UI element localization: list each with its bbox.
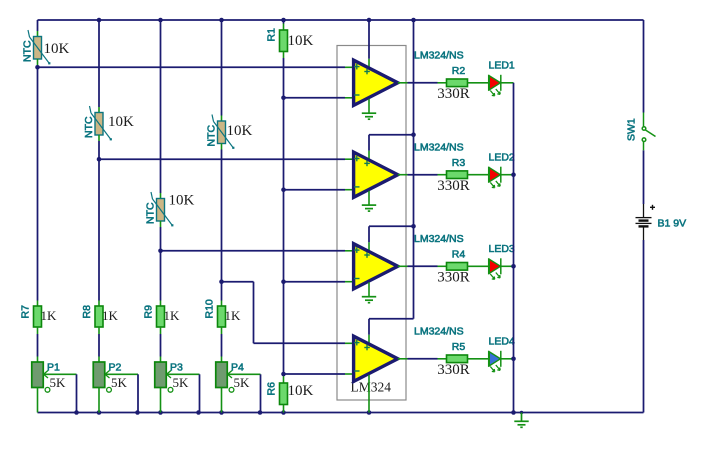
wire R7 to P1 xyxy=(37,327,39,334)
op-amp unit 2 output pin xyxy=(398,174,408,176)
wire R10 to P4 xyxy=(221,327,223,334)
op-amp U1A LM324 unit 1 xyxy=(354,60,398,105)
svg-text:LM324/NS: LM324/NS xyxy=(414,326,464,338)
LED4 emission arrows xyxy=(490,365,500,372)
wire power branch to op-amp 4 xyxy=(369,318,414,320)
potentiometer P1 wiper arrow xyxy=(44,371,49,379)
svg-text:10K: 10K xyxy=(288,383,314,399)
svg-text:1K: 1K xyxy=(41,308,58,323)
switch SW1 xyxy=(642,113,655,151)
svg-text:P1: P1 xyxy=(47,362,60,374)
thermistor NTC1 body xyxy=(34,37,42,60)
svg-text:10K: 10K xyxy=(169,193,195,209)
svg-text:330R: 330R xyxy=(437,270,470,286)
thermistor NTC2 diagonal mark xyxy=(90,106,111,139)
wire R2 to LED1 xyxy=(468,82,489,84)
resistor R9 xyxy=(157,306,165,327)
svg-text:P2: P2 xyxy=(109,362,122,374)
potentiometer P4 wiper arrow xyxy=(228,371,233,379)
resistor R4 xyxy=(438,265,447,267)
svg-text:R5: R5 xyxy=(452,341,466,353)
svg-text:330R: 330R xyxy=(437,178,470,194)
wire NTC4 bottom to junction and down to R10 xyxy=(221,144,223,150)
svg-text:R2: R2 xyxy=(452,65,466,77)
op-amp unit 3 input polarity marks xyxy=(354,247,370,278)
potentiometer P3 wiper arrow xyxy=(167,371,172,379)
potentiometer P3 xyxy=(155,362,167,388)
wire op-amp 1 V+ from top rail xyxy=(368,20,370,59)
op-amp U1 package outline LM324 xyxy=(337,46,406,401)
LED3 xyxy=(489,259,500,273)
svg-text:LED4: LED4 xyxy=(489,336,515,348)
svg-text:P3: P3 xyxy=(170,362,183,374)
svg-text:LM324/NS: LM324/NS xyxy=(414,233,464,245)
svg-text:LM324/NS: LM324/NS xyxy=(414,50,464,62)
op-amp unit 2 ground pin and symbol xyxy=(368,191,370,205)
svg-text:R9: R9 xyxy=(143,305,155,319)
wire power branch to op-amp 3 xyxy=(369,225,414,227)
wire NTC1 junction to op-amp 1 non-inverting input xyxy=(38,66,346,68)
wire R6 bottom stub xyxy=(283,405,285,413)
wire R5 to LED4 xyxy=(468,358,489,360)
wire P2 wiper to bottom rail xyxy=(105,373,138,375)
wire LED1 cathode to LED bus xyxy=(501,82,514,84)
op-amp unit 4 output pin xyxy=(398,358,408,360)
svg-text:LED2: LED2 xyxy=(489,152,515,164)
wire NTC3 junction to op-amp 3 non-inverting input xyxy=(161,250,346,252)
svg-text:10K: 10K xyxy=(227,123,253,139)
op-amp unit 4 ground pin to bottom rail xyxy=(368,375,370,413)
LED2 xyxy=(489,168,500,182)
LED2 emission arrows xyxy=(490,181,500,188)
svg-text:LED1: LED1 xyxy=(489,60,515,72)
svg-text:R7: R7 xyxy=(20,305,32,319)
resistor R1 xyxy=(280,30,288,52)
svg-text:NTC: NTC xyxy=(83,116,95,138)
op-amp unit 4 input polarity marks xyxy=(354,340,370,371)
svg-text:R10: R10 xyxy=(204,299,216,318)
thermistor NTC3 diagonal mark xyxy=(151,192,172,225)
op-amp unit 1 input polarity marks xyxy=(354,64,370,95)
wire battery to bottom rail xyxy=(643,240,645,413)
svg-text:5K: 5K xyxy=(173,375,190,390)
node divider junction column 1 xyxy=(35,65,40,70)
wire P1 wiper to bottom rail xyxy=(44,373,77,375)
thermistor NTC4 diagonal mark xyxy=(212,115,233,148)
svg-text:1K: 1K xyxy=(164,308,181,323)
LED4 xyxy=(489,352,500,366)
potentiometer P1 xyxy=(32,362,44,388)
svg-text:10K: 10K xyxy=(288,33,314,49)
op-amp unit 1 output pin xyxy=(398,82,408,84)
resistor R2 xyxy=(438,82,447,84)
node divider junction column 4 xyxy=(219,279,224,284)
wire R3 to LED2 xyxy=(468,174,489,176)
op-amp unit 3 ground pin and symbol xyxy=(368,282,370,296)
node junctions on bottom rail xyxy=(74,410,79,415)
wire P3 wiper to bottom rail xyxy=(167,373,200,375)
svg-text:5K: 5K xyxy=(50,375,67,390)
wire divider node to op-amp 3 inverting input xyxy=(284,281,346,283)
LED1 emission arrows xyxy=(490,89,500,96)
resistor R7 xyxy=(34,306,42,327)
op-amp U1B LM324 unit 2 xyxy=(354,152,398,197)
potentiometer P4 xyxy=(216,362,228,388)
wire power branch to op-amp 2 xyxy=(369,134,414,136)
resistor R10 xyxy=(218,306,226,327)
battery B1 xyxy=(636,204,656,240)
potentiometer P2 xyxy=(93,362,105,388)
thermistor NTC2 body xyxy=(95,113,103,136)
svg-text:R1: R1 xyxy=(265,28,277,42)
svg-text:NTC: NTC xyxy=(206,125,218,147)
svg-text:5K: 5K xyxy=(234,375,251,390)
svg-text:LM324/NS: LM324/NS xyxy=(414,142,464,154)
svg-text:10K: 10K xyxy=(44,41,70,57)
svg-text:P4: P4 xyxy=(231,362,244,374)
svg-text:R8: R8 xyxy=(81,305,93,319)
wire R4 to LED3 xyxy=(468,265,489,267)
wire P2 bottom to rail xyxy=(98,388,100,413)
node divider junction column 2 xyxy=(97,157,102,162)
wire V+ top rail xyxy=(38,19,644,21)
resistor R6 xyxy=(280,383,288,405)
wire P4 bottom to rail xyxy=(221,388,223,413)
wire NTC2 junction to op-amp 2 non-inverting input xyxy=(99,158,345,160)
svg-text:NTC: NTC xyxy=(145,202,157,224)
wire V+ power bus vertical xyxy=(413,20,415,319)
wire switch to battery xyxy=(643,150,645,204)
resistor R5 xyxy=(438,358,447,360)
node junctions on top rail xyxy=(97,18,102,23)
wire LED3 cathode to LED bus xyxy=(501,265,514,267)
wire P1 bottom to rail xyxy=(37,388,39,413)
wire P3 bottom to rail xyxy=(160,388,162,413)
svg-text:10K: 10K xyxy=(108,114,134,130)
wire divider node to op-amp 1 inverting input xyxy=(284,97,346,99)
op-amp U1C LM324 unit 3 xyxy=(354,244,398,289)
svg-text:NTC: NTC xyxy=(22,40,34,62)
potentiometer P2 wiper terminal circle xyxy=(107,387,112,392)
ground symbol at bottom rail xyxy=(521,413,523,422)
wire divider column node A xyxy=(283,52,285,59)
wire column 4 top stub xyxy=(221,20,223,116)
potentiometer P4 wiper terminal circle xyxy=(229,387,234,392)
wire divider node to op-amp 4 inverting input xyxy=(284,373,346,375)
wire LED2 cathode to LED bus xyxy=(501,174,514,176)
wire column 3 top stub xyxy=(160,20,162,193)
wire LED cathode bus to bottom rail xyxy=(513,83,515,413)
thermistor NTC3 body xyxy=(157,199,165,222)
svg-text:1K: 1K xyxy=(225,308,242,323)
op-amp unit 1 ground pin and symbol xyxy=(368,99,370,113)
wire NTC1 bottom to junction and down to R7 xyxy=(37,59,39,65)
LED1 xyxy=(489,76,500,90)
op-amp U1D LM324 unit 4 xyxy=(354,336,398,381)
thermistor NTC1 diagonal mark xyxy=(28,30,49,63)
wire column 1 top stub xyxy=(37,20,39,31)
wire divider node to op-amp 2 inverting input xyxy=(284,189,346,191)
svg-text:330R: 330R xyxy=(437,86,470,102)
resistor R8 xyxy=(95,306,103,327)
wire P4 wiper to bottom rail xyxy=(228,373,261,375)
wire GND bottom rail xyxy=(38,412,644,414)
svg-text:SW1: SW1 xyxy=(626,118,638,141)
svg-text:5K: 5K xyxy=(111,375,128,390)
svg-text:330R: 330R xyxy=(437,362,470,378)
resistor R3 xyxy=(438,174,447,176)
thermistor NTC4 body xyxy=(218,121,226,144)
LED3 emission arrows xyxy=(490,273,500,280)
wire column 2 top stub xyxy=(98,20,100,107)
wire R1 top stub xyxy=(283,20,285,24)
potentiometer P1 wiper terminal circle xyxy=(45,387,50,392)
wire R8 to P2 xyxy=(98,327,100,334)
svg-text:B1 9V: B1 9V xyxy=(658,218,687,230)
op-amp unit 2 input polarity marks xyxy=(354,156,370,187)
potentiometer P2 wiper arrow xyxy=(105,371,110,379)
wire R9 to P3 xyxy=(160,327,162,334)
wire NTC4 junction to op-amp 4 non-inverting input xyxy=(222,281,254,283)
svg-text:R3: R3 xyxy=(452,157,466,169)
potentiometer P3 wiper terminal circle xyxy=(168,387,173,392)
wire NTC2 bottom to junction and down to R8 xyxy=(98,135,100,141)
svg-text:LED3: LED3 xyxy=(489,243,515,255)
wire LED4 cathode to LED bus xyxy=(501,358,514,360)
wire NTC3 bottom to junction and down to R9 xyxy=(160,221,162,227)
svg-text:1K: 1K xyxy=(102,308,119,323)
svg-text:R4: R4 xyxy=(452,249,466,261)
svg-text:R6: R6 xyxy=(265,382,277,396)
node divider junction column 3 xyxy=(158,249,163,254)
op-amp unit 3 output pin xyxy=(398,265,408,267)
wire battery column right side xyxy=(643,20,645,113)
